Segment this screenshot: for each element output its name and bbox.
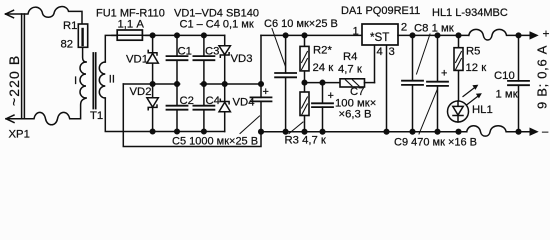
svg-text:C4: C4 (206, 95, 220, 107)
capacitor C7 100 мк x 6,3 В (312, 83, 376, 132)
svg-text:I: I (74, 75, 77, 87)
resistor R3 4,7 к (285, 83, 326, 147)
svg-text:1 мк: 1 мк (496, 89, 518, 101)
svg-text:C7: C7 (350, 86, 364, 98)
svg-text:~220 В: ~220 В (6, 55, 22, 106)
capacitor C2 (167, 84, 194, 132)
wire positive riser to top-right rail (260, 35, 262, 84)
svg-text:VD1: VD1 (126, 54, 148, 66)
output plus arrow (530, 27, 550, 41)
svg-text:VD2: VD2 (130, 86, 152, 98)
svg-text:1: 1 (353, 26, 359, 38)
plug XP1 pin top arrow (6, 10, 14, 17)
capacitor C1 (167, 35, 192, 84)
svg-text:R3 4,7 к: R3 4,7 к (285, 135, 326, 147)
transformer T1 core (93, 53, 95, 109)
diode VD3 (219, 35, 252, 84)
svg-text:R5: R5 (466, 46, 480, 58)
wire output cord squiggle top (469, 29, 530, 40)
capacitor C10 1 мк (494, 35, 529, 131)
svg-text:C3: C3 (205, 46, 219, 58)
plug XP1 pin bottom arrow (6, 115, 14, 122)
svg-text:×6,3 В: ×6,3 В (339, 109, 372, 121)
svg-text:R2*: R2* (313, 45, 332, 57)
svg-text:HL1 L-934MBC: HL1 L-934MBC (432, 7, 508, 19)
svg-text:2: 2 (401, 22, 407, 34)
capacitor C9 470 мк x 16 В (394, 35, 477, 148)
wire DA1 pin 3 (386, 45, 388, 132)
svg-text:+: + (543, 27, 550, 41)
svg-text:3: 3 (389, 46, 395, 58)
svg-text:C6 10 мк×25 В: C6 10 мк×25 В (264, 18, 338, 30)
svg-text:82: 82 (61, 39, 74, 51)
wire DA1 pin 4 (374, 45, 376, 83)
svg-text:C1: C1 (178, 46, 192, 58)
wire secondary top to fuse (105, 35, 117, 62)
svg-text:C5 1000 мк×25 В: C5 1000 мк×25 В (172, 136, 258, 148)
svg-text:–: – (542, 126, 549, 138)
svg-text:4,7 к: 4,7 к (338, 64, 362, 76)
transformer T1 primary winding I (74, 62, 86, 98)
wire mid-right positive rail (201, 83, 262, 85)
wire output top rail from pin 2 (398, 34, 469, 36)
svg-text:+: + (263, 86, 269, 98)
svg-text:DA1 PQ09RE11: DA1 PQ09RE11 (341, 5, 420, 17)
svg-text:T1: T1 (90, 110, 103, 122)
capacitor C6 10 мк x 25 В (264, 18, 338, 132)
capacitor C3 (193, 35, 219, 84)
svg-text:9 В; 0,6 А: 9 В; 0,6 А (535, 45, 550, 109)
resistor R4 4,7 к (338, 51, 375, 87)
wire negative riser and dip rail to C5 junction (123, 84, 261, 147)
wire control net (305, 82, 341, 84)
svg-text:R1: R1 (63, 20, 77, 32)
diode VD2 (130, 84, 159, 132)
transformer T1 secondary winding II (99, 62, 115, 98)
plug XP1 body double line (22, 14, 25, 119)
capacitor C8 1 мк (402, 23, 454, 132)
capacitor C5 1000 мк x 25 В (172, 84, 272, 148)
wire AC1 top-left rail (146, 34, 225, 36)
wire top mains cord squiggle to R1 (6, 7, 83, 24)
svg-text:C8 1 мк: C8 1 мк (414, 23, 454, 35)
svg-text:C10: C10 (494, 70, 515, 82)
wire bottom output rail (261, 131, 467, 133)
diode VD1 (126, 35, 158, 84)
op-amp DA1 PQ09RE11 regulator (341, 5, 420, 45)
svg-text:XP1: XP1 (9, 129, 30, 141)
wire bottom mains cord squiggle to T1 primary (6, 98, 86, 125)
resistor R5 12 к (454, 35, 486, 101)
fuse FU1 MF-R110 1,1 A (96, 8, 165, 41)
svg-text:HL1: HL1 (472, 104, 493, 116)
svg-text:*ST: *ST (370, 31, 389, 44)
svg-text:C2: C2 (180, 95, 194, 107)
LED HL1 L-934MBC (432, 7, 508, 122)
svg-text:C9 470 мк ×16 В: C9 470 мк ×16 В (394, 137, 477, 149)
svg-text:12 к: 12 к (466, 62, 487, 74)
svg-text:R4: R4 (343, 51, 357, 63)
svg-text:+: + (441, 67, 447, 79)
wire top-right positive rail (261, 34, 362, 36)
resistor R2 24 к (300, 35, 333, 82)
svg-text:24 к: 24 к (313, 62, 334, 74)
svg-text:II: II (109, 74, 115, 86)
wire AC2 bottom rail from secondary (105, 98, 224, 132)
svg-text:+: + (328, 90, 334, 102)
resistor R1 82 (61, 20, 88, 62)
svg-text:4: 4 (377, 46, 383, 58)
svg-text:C1 – C4 0,1 мк: C1 – C4 0,1 мк (180, 19, 254, 31)
output minus arrow (530, 126, 549, 138)
capacitor C4 (193, 84, 220, 132)
wire mid-left negative rail (123, 83, 179, 85)
svg-text:VD3: VD3 (231, 53, 253, 65)
diode VD4 (219, 84, 254, 132)
wire output cord squiggle bottom (467, 126, 530, 136)
svg-text:1,1 А: 1,1 А (118, 19, 145, 31)
